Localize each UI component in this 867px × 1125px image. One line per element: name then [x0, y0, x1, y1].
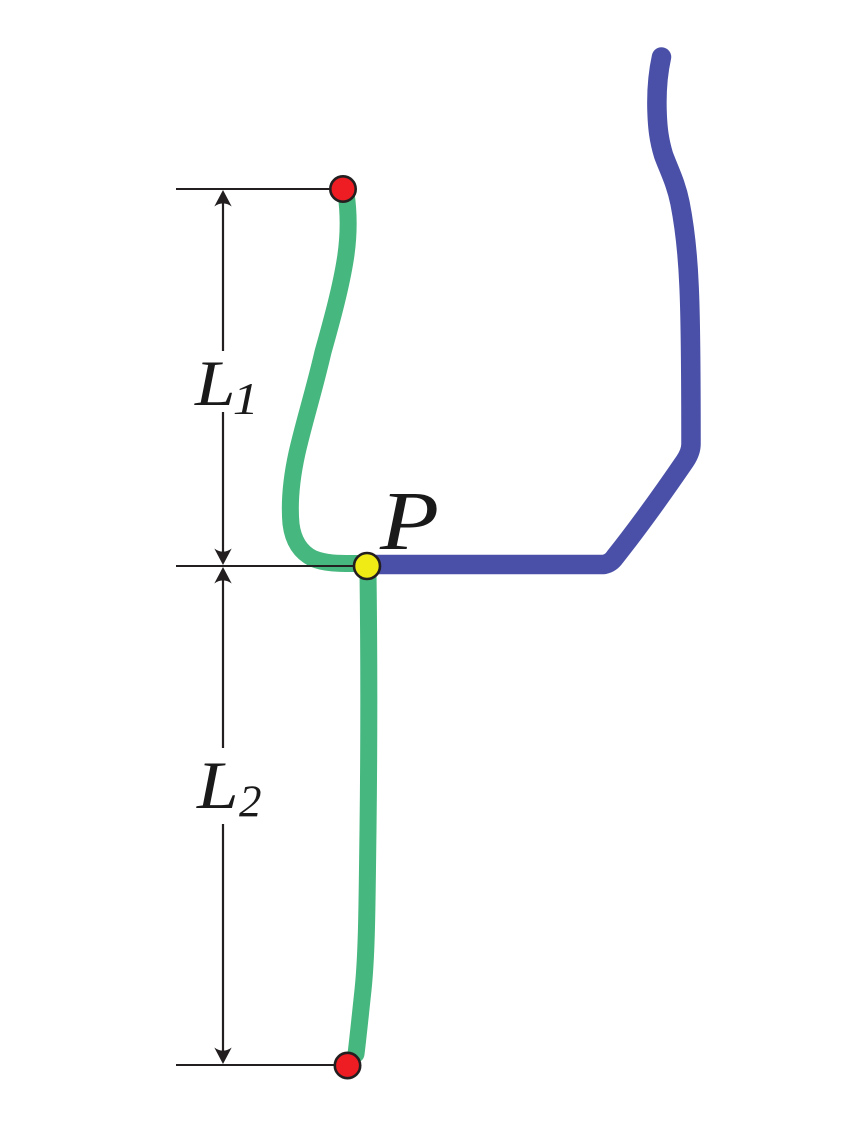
- L1 dimension vertical line upper part with up arrow: [222, 203, 224, 351]
- dimension extension line middle: [176, 565, 366, 567]
- svg-text:L: L: [194, 348, 236, 420]
- dimension extension line bottom: [176, 1064, 348, 1066]
- L2 dimension vertical line lower part with down arrow: [222, 824, 224, 1051]
- label P: [379, 474, 439, 568]
- svg-text:P: P: [379, 474, 439, 568]
- L1 down arrowhead: [214, 549, 231, 566]
- L1 dimension vertical line lower part with down arrow: [222, 412, 224, 552]
- svg-text:2: 2: [239, 777, 262, 827]
- dimension extension line top: [176, 188, 344, 190]
- yellow dot P: [354, 553, 380, 579]
- svg-text:1: 1: [233, 375, 259, 424]
- L2 down arrowhead: [214, 1048, 231, 1065]
- green curve upper L1 segment: [290, 193, 357, 564]
- blue curve: [372, 57, 691, 565]
- L2 up arrowhead: [214, 567, 231, 584]
- green segment L2 vertical: [356, 572, 369, 1054]
- L2 dimension vertical line upper part with up arrow: [222, 580, 224, 748]
- label L2: [196, 748, 239, 823]
- red dot bottom: [335, 1053, 360, 1078]
- label L1: [194, 348, 236, 420]
- svg-text:L: L: [196, 748, 239, 823]
- red dot top: [330, 176, 355, 201]
- L1 up arrowhead: [214, 190, 231, 207]
